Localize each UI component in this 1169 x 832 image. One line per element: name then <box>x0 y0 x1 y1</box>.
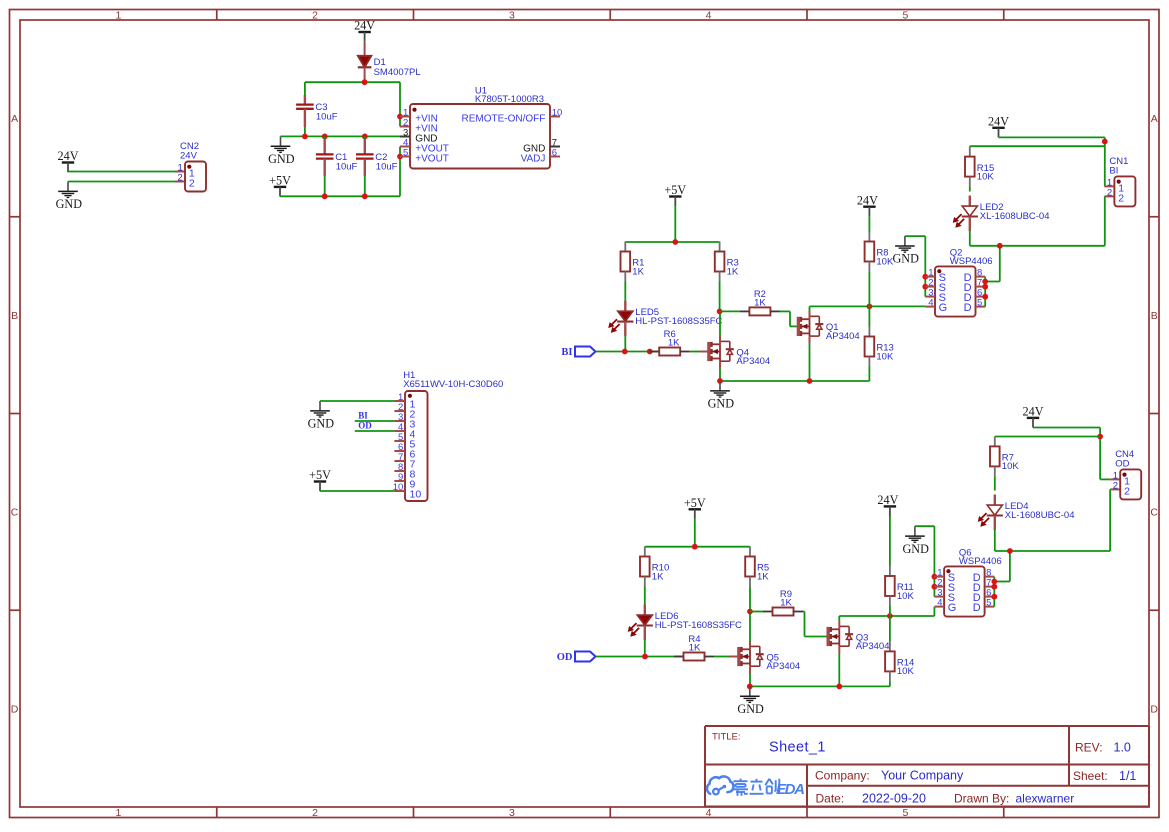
svg-text:C: C <box>1150 507 1158 519</box>
junction LED4 rail to Q6 <box>1007 548 1013 554</box>
svg-text:HL-PST-1608S35FC: HL-PST-1608S35FC <box>635 316 722 327</box>
capacitor C2 10uF <box>364 136 366 154</box>
svg-text:24V: 24V <box>354 19 375 33</box>
wire Q3 drain to rail <box>838 616 840 621</box>
port BI <box>561 347 595 359</box>
junction R5-Q5-R9 <box>747 609 753 615</box>
svg-text:4: 4 <box>706 9 712 21</box>
svg-text:VADJ: VADJ <box>521 153 546 164</box>
ground GND (Q2 source) <box>892 236 919 266</box>
wire Q2 drain bus <box>984 277 986 307</box>
wire R13 to GND rail <box>868 380 870 382</box>
svg-text:GND: GND <box>737 702 764 716</box>
svg-text:D: D <box>964 302 972 314</box>
svg-text:+VOUT: +VOUT <box>415 153 449 164</box>
wire R15 branch <box>970 145 1105 147</box>
junction +5V rail (OD) <box>692 544 698 550</box>
junction R15 branch <box>1102 139 1108 145</box>
junction Q2 pin6 <box>982 294 988 300</box>
wire R6 to Q4 gate <box>690 351 700 353</box>
resistor R5 1K <box>745 547 769 612</box>
connector CN2 24V <box>175 141 206 191</box>
svg-text:SM4007PL: SM4007PL <box>374 67 421 78</box>
junction at U1 pin 5 <box>397 154 403 160</box>
wire C3 bottom <box>304 109 306 127</box>
svg-text:AP3404: AP3404 <box>826 331 860 342</box>
resistor R10 1K <box>640 547 669 605</box>
wire 24V to CN4 pin1 <box>1033 427 1100 429</box>
svg-text:5: 5 <box>902 9 908 21</box>
transistor Q6 WSP4406 <box>934 547 1001 616</box>
svg-text:Company:: Company: <box>815 769 870 783</box>
svg-text:C: C <box>11 507 19 519</box>
wire R9 to Q3 gate <box>803 611 805 613</box>
connector CN4 OD <box>1110 449 1141 499</box>
svg-text:Date:: Date: <box>816 791 845 805</box>
svg-text:4: 4 <box>706 807 712 819</box>
svg-text:+5V: +5V <box>664 183 686 197</box>
junction C2 bottom <box>362 193 368 199</box>
resistor R13 10K <box>865 306 894 381</box>
LED4 XL-1608UBC-04 <box>978 495 1074 531</box>
wire CN4 pin2 down <box>1109 489 1111 551</box>
junction C2 top <box>362 134 368 140</box>
resistor R2 1K <box>740 289 780 316</box>
svg-text:4: 4 <box>937 598 942 609</box>
ground GND (Q6 source) <box>902 526 929 556</box>
LED5 HL-PST-1608S35FC <box>609 301 723 337</box>
wire +5V stem (BI) <box>674 206 676 242</box>
svg-text:G: G <box>939 302 948 314</box>
svg-text:GND: GND <box>268 152 295 166</box>
svg-text:2: 2 <box>1118 192 1124 204</box>
junction at U1 pin 1 <box>397 114 403 120</box>
ground GND (H1 pin1) <box>308 401 335 431</box>
wire +5V stem (OD) <box>694 519 696 547</box>
wire Q4 source <box>719 368 721 381</box>
svg-text:1K: 1K <box>727 266 739 277</box>
resistor R8 10K <box>868 216 870 231</box>
svg-text:AP3404: AP3404 <box>736 356 770 367</box>
junction Q6 pin7 <box>991 584 997 590</box>
wire R2 to Q1 gate <box>780 310 790 312</box>
svg-text:WSP4406: WSP4406 <box>959 556 1002 567</box>
svg-text:1/1: 1/1 <box>1119 769 1136 783</box>
ground GND (BI stage) <box>708 381 735 411</box>
svg-text:+5V: +5V <box>684 496 706 510</box>
svg-text:5: 5 <box>986 598 991 609</box>
svg-text:10uF: 10uF <box>376 161 398 172</box>
wire Q2 gate rail <box>810 305 926 307</box>
logo JLC EDA <box>707 776 805 798</box>
svg-text:BI: BI <box>358 410 368 420</box>
svg-text:10: 10 <box>410 489 422 501</box>
svg-text:2: 2 <box>1124 485 1130 497</box>
svg-text:B: B <box>11 310 18 322</box>
connector CN1 BI <box>1104 156 1135 206</box>
svg-text:BI: BI <box>561 347 572 358</box>
svg-text:5: 5 <box>902 807 908 819</box>
junction Q3 source <box>836 684 842 690</box>
svg-text:24V: 24V <box>988 114 1009 128</box>
junction Q2 pin1 <box>922 274 928 280</box>
power symbol 24V (CN2) <box>58 149 79 172</box>
wire +5V output rail <box>279 195 281 197</box>
svg-text:GND: GND <box>708 397 735 411</box>
svg-text:24V: 24V <box>180 151 198 162</box>
svg-text:2: 2 <box>189 177 195 189</box>
svg-text:A: A <box>1151 113 1158 125</box>
wire LED4 to rail <box>994 530 996 552</box>
junction Q2 drain feed <box>982 279 988 285</box>
junction Q6 pin2 <box>932 584 938 590</box>
junction Q6 pin6 <box>991 594 997 600</box>
svg-text:OD: OD <box>358 421 372 431</box>
ground GND (regulator input) <box>268 136 295 166</box>
svg-text:Sheet_1: Sheet_1 <box>769 740 826 756</box>
svg-text:4: 4 <box>928 298 933 309</box>
svg-text:AP3404: AP3404 <box>766 661 800 672</box>
svg-text:2022-09-20: 2022-09-20 <box>862 791 926 805</box>
LED2 XL-1608UBC-04 <box>953 196 1049 232</box>
resistor R9 1K <box>763 589 803 616</box>
svg-text:2: 2 <box>1113 481 1118 492</box>
svg-text:HL-PST-1608S35FC: HL-PST-1608S35FC <box>655 620 742 631</box>
svg-text:10K: 10K <box>897 591 915 602</box>
svg-text:Drawn By:: Drawn By: <box>954 791 1009 805</box>
wire Q2 source net <box>905 235 925 237</box>
svg-text:24V: 24V <box>1023 405 1044 419</box>
ground GND (CN2) <box>67 181 69 183</box>
svg-text:OD: OD <box>1115 459 1129 470</box>
svg-text:1K: 1K <box>652 571 664 582</box>
company text <box>815 769 964 783</box>
junction C1 bottom <box>322 193 328 199</box>
svg-text:2: 2 <box>312 9 318 21</box>
junction OD-LED6 <box>642 654 648 660</box>
wire R2 branch <box>720 310 740 312</box>
svg-text:1K: 1K <box>689 643 701 654</box>
wire OD net <box>596 656 676 658</box>
resistor R7 10K <box>990 436 1019 490</box>
svg-text:+5V: +5V <box>269 174 291 188</box>
regulator U1 K7805T-1000R3 <box>400 86 562 169</box>
capacitor C1 10uF <box>324 136 326 154</box>
junction Q2 pin2 <box>922 284 928 290</box>
svg-text:B: B <box>1151 310 1158 322</box>
junction R11-R14 node <box>887 613 893 619</box>
svg-text:10: 10 <box>552 107 563 118</box>
wire Q5 source <box>749 673 751 686</box>
wire +5V to H1 pin10 <box>319 490 321 492</box>
svg-text:1K: 1K <box>668 338 680 349</box>
wire H1 pin1 to GND <box>320 400 394 402</box>
svg-text:1: 1 <box>115 9 121 21</box>
capacitor C3 10uF <box>304 95 306 105</box>
svg-text:XL-1608UBC-04: XL-1608UBC-04 <box>1005 510 1075 521</box>
wire GND mid rail <box>281 135 401 137</box>
wire 24V to CN1 pin1 <box>999 136 1105 138</box>
resistor R1 1K <box>621 242 645 301</box>
title text Sheet_1 <box>712 732 826 756</box>
svg-text:Sheet:: Sheet: <box>1073 769 1108 783</box>
transistor Q1 AP3404 <box>798 311 859 344</box>
ground GND (OD stage) <box>737 686 764 716</box>
junction R8-R13 node <box>867 304 873 310</box>
wire LED6 to OD net <box>644 640 646 657</box>
svg-text:1.0: 1.0 <box>1114 741 1131 755</box>
LED6 HL-PST-1608S35FC <box>628 605 742 641</box>
resistor R4 1K <box>674 634 714 661</box>
wire Q6 drain bus <box>993 577 995 607</box>
junction +5V rail (BI) <box>672 239 678 245</box>
power symbol +5V (regulator output) <box>269 174 291 197</box>
svg-text:5: 5 <box>977 298 982 309</box>
wire Q4 drain <box>719 311 721 336</box>
svg-text:D: D <box>1150 703 1158 715</box>
wire LED2 cathode rail <box>970 245 1105 247</box>
wire Q3 source <box>838 653 840 686</box>
svg-text:6: 6 <box>552 147 557 158</box>
svg-text:1: 1 <box>115 807 121 819</box>
junction Q5 source <box>747 684 753 690</box>
power symbol 24V (D1) <box>354 19 375 42</box>
svg-text:REV:: REV: <box>1075 741 1103 755</box>
svg-text:24V: 24V <box>857 193 878 207</box>
diode D1 SM4007PL <box>364 42 366 56</box>
wire R4 to Q5 gate <box>714 656 730 658</box>
wire Q1 drain to rail <box>809 306 811 311</box>
svg-text:A: A <box>11 113 18 125</box>
junction Q6 drain feed <box>991 579 997 585</box>
svg-text:3: 3 <box>509 9 515 21</box>
svg-text:EDA: EDA <box>776 781 805 798</box>
wire C1 bottom <box>324 159 326 176</box>
wire LED2 to rail <box>969 231 971 246</box>
svg-text:10K: 10K <box>876 351 894 362</box>
power symbol +5V (BI stage) <box>664 183 686 206</box>
junction C3-GND rail <box>302 134 308 140</box>
svg-text:1K: 1K <box>780 598 792 609</box>
svg-text:1K: 1K <box>757 571 769 582</box>
wire GND to CN2 pin 2 <box>68 181 175 183</box>
resistor R14 10K <box>885 616 914 686</box>
wire 24V to CN2 pin 1 <box>67 171 69 174</box>
svg-text:WSP4406: WSP4406 <box>950 256 993 267</box>
resistor R6 1K <box>650 329 690 356</box>
wire D1 cathode to rail <box>364 67 366 82</box>
date drawn-by text <box>816 791 1075 805</box>
junction Q4 source <box>717 378 723 384</box>
wire LED5 to BI net <box>624 336 626 352</box>
junction Q6 pin1 <box>932 574 938 580</box>
power symbol 24V (R11) <box>877 493 898 516</box>
junction C1 top <box>322 134 328 140</box>
wire net BI to H1 pin3 <box>355 420 395 422</box>
svg-text:1K: 1K <box>632 266 644 277</box>
svg-text:24V: 24V <box>877 493 898 507</box>
svg-text:3: 3 <box>509 807 515 819</box>
wire +5V rail (BI) <box>625 241 719 243</box>
svg-text:10K: 10K <box>876 256 894 267</box>
junction BI-R6 <box>647 349 653 355</box>
power symbol 24V (CN4) <box>1023 405 1044 428</box>
wire R9 branch <box>750 611 763 613</box>
wire Q1 source <box>809 343 811 381</box>
wire GND rail (BI stage) <box>720 380 869 382</box>
wire VIN top rail <box>305 81 400 83</box>
resistor R15 10K <box>965 147 994 192</box>
transistor Q5 AP3404 <box>739 641 800 674</box>
sheet text 1/1 <box>1073 769 1136 783</box>
junction Q1 source <box>807 378 813 384</box>
junction LED2 rail to Q2 <box>997 243 1003 249</box>
svg-text:X6511WV-10H-C30D60: X6511WV-10H-C30D60 <box>403 379 503 390</box>
title block <box>705 726 1149 807</box>
wire C2 bottom <box>364 159 366 176</box>
port OD <box>557 652 596 664</box>
wire R7 branch <box>995 436 1100 438</box>
wire Q5 drain <box>749 612 751 642</box>
junction Q2 pin7 <box>982 284 988 290</box>
wire R14 corner <box>889 685 891 687</box>
svg-text:5: 5 <box>403 147 408 158</box>
power symbol +5V (H1) <box>309 468 331 491</box>
wire +5V rail (OD) <box>645 546 750 548</box>
svg-text:XL-1608UBC-04: XL-1608UBC-04 <box>980 211 1050 222</box>
svg-text:10uF: 10uF <box>336 161 358 172</box>
transistor Q2 WSP4406 <box>925 247 992 316</box>
svg-text:10K: 10K <box>1002 461 1020 472</box>
wire GND rail (OD stage) <box>750 685 890 687</box>
junction BI-LED5 <box>622 349 628 355</box>
svg-text:+5V: +5V <box>309 468 331 482</box>
junction R7 branch <box>1097 434 1103 440</box>
svg-text:OD: OD <box>557 652 573 663</box>
svg-text:24V: 24V <box>58 149 79 163</box>
wire LED4 cathode rail <box>995 550 1110 552</box>
svg-text:alexwarner: alexwarner <box>1016 791 1075 805</box>
rev text 1.0 <box>1075 741 1131 755</box>
wire net OD to H1 pin4 <box>355 430 395 432</box>
transistor Q3 AP3404 <box>828 621 889 654</box>
wire BI net <box>596 351 651 353</box>
svg-text:GND: GND <box>892 252 919 266</box>
svg-text:D: D <box>973 602 981 614</box>
power symbol 24V (CN1) <box>988 114 1009 137</box>
resistor R11 10K <box>889 516 891 566</box>
svg-text:1K: 1K <box>754 298 766 309</box>
svg-text:10uF: 10uF <box>316 112 338 123</box>
svg-text:GND: GND <box>308 417 335 431</box>
svg-text:10K: 10K <box>977 171 995 182</box>
svg-text:10K: 10K <box>897 666 915 677</box>
resistor R3 1K <box>715 242 739 312</box>
transistor Q4 AP3404 <box>709 336 770 369</box>
svg-text:2: 2 <box>1107 188 1112 199</box>
power symbol +5V (OD stage) <box>684 496 706 519</box>
svg-text:REMOTE-ON/OFF: REMOTE-ON/OFF <box>462 113 546 124</box>
svg-text:GND: GND <box>56 197 83 211</box>
svg-text:2: 2 <box>312 807 318 819</box>
svg-text:GND: GND <box>902 542 929 556</box>
svg-text:TITLE:: TITLE: <box>712 732 741 743</box>
svg-text:BI: BI <box>1109 166 1118 177</box>
svg-text:Your Company: Your Company <box>881 769 964 783</box>
wire Q6 gate rail <box>839 615 934 617</box>
junction R3-Q4-R2 <box>717 309 723 315</box>
wire Q6 source net <box>915 525 935 527</box>
svg-text:AP3404: AP3404 <box>856 641 890 652</box>
svg-text:D: D <box>11 703 19 715</box>
wire CN1 pin2 down <box>1104 196 1106 245</box>
svg-text:2: 2 <box>178 173 183 184</box>
svg-text:G: G <box>948 602 957 614</box>
junction at D1 cathode <box>362 79 368 85</box>
power symbol 24V (R8) <box>857 193 878 216</box>
connector H1 X6511WV-10H-C30D60 <box>393 370 504 501</box>
